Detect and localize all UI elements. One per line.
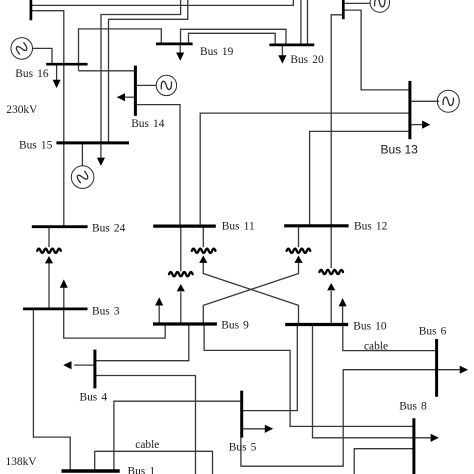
bus 8 (412, 418, 415, 474)
svg-text:Bus 1: Bus 1 (128, 465, 156, 474)
load arrow bus3 (60, 279, 68, 287)
wire bus17 to bus16 (32, 11, 64, 226)
transformer arrow T1 (45, 256, 53, 263)
wire load stem bus19 (179, 44, 181, 53)
wire bus11 to bus13 (200, 113, 408, 226)
svg-text:Bus 5: Bus 5 (229, 442, 257, 454)
wire bus12 to bus13 (310, 131, 409, 225)
wire bus21 to generator (344, 2, 370, 4)
transformer winding T4 (bus12-bus9) (287, 249, 311, 253)
bus 13 (408, 81, 411, 139)
wire bus3 to bus9 (64, 309, 166, 338)
svg-text:Bus 12: Bus 12 (354, 221, 388, 233)
svg-text:cable: cable (135, 439, 159, 451)
wire load arrow stem bus9 (158, 305, 160, 323)
wire bus21 to bus13 (344, 10, 408, 90)
load arrow bus14 (117, 93, 125, 101)
transformer winding T2 (bus11-bus9) (169, 272, 193, 276)
wire bus8 to bottom edge (354, 449, 413, 474)
wire bus16 to bus14 (79, 70, 136, 72)
wire load stem bus13 (410, 124, 422, 126)
generator G14 (156, 75, 176, 95)
load arrow bus9 (155, 297, 163, 305)
svg-text:Bus 20: Bus 20 (290, 54, 324, 66)
arrow on line at bus6 (460, 366, 468, 374)
wire bus14 to bus11 (135, 105, 180, 226)
wire bus19 to bus20 upper (181, 29, 287, 44)
wire bus11 to transformer T3 (202, 226, 204, 247)
bus 15 (56, 141, 129, 144)
bus 20 (269, 44, 314, 47)
transformer arrow T5 (327, 283, 335, 290)
transformer winding T1 (bus24-bus3) (37, 249, 61, 253)
bus 14 (134, 66, 137, 116)
svg-text:Bus 19: Bus 19 (200, 46, 234, 58)
wire generator G16 to bus16 (33, 48, 52, 63)
wire load stem bus16 (56, 64, 58, 80)
wire load arrow stem bus10 (342, 306, 344, 324)
svg-text:Bus 4: Bus 4 (80, 392, 108, 404)
wire bus5 to bus10 (242, 324, 297, 410)
wire load stem bus20 (281, 45, 283, 56)
wire cable line at bus1 (95, 451, 213, 474)
wire bus24 to transformer T1 (48, 227, 50, 248)
svg-text:Bus 3: Bus 3 (92, 306, 120, 318)
transformer arrow T4 (294, 256, 302, 263)
wire generator G15 to bus15 (81, 144, 83, 166)
load arrow bus15 (97, 158, 105, 166)
svg-text:Bus 10: Bus 10 (353, 321, 387, 333)
wire transformer T5 to bus10 (330, 291, 332, 324)
transformer winding T3 (bus11-bus10) (192, 249, 216, 253)
svg-text:Bus 15: Bus 15 (19, 139, 53, 151)
wire load stem bus4 (74, 364, 94, 366)
svg-text:cable: cable (364, 341, 388, 353)
wire bus5 to bus1 (114, 401, 241, 470)
svg-text:138kV: 138kV (6, 456, 38, 468)
load arrow bus13 (422, 121, 430, 129)
transformer arrow T2 (177, 284, 185, 291)
wire bus20 to top edge b (307, 0, 309, 44)
load arrow bus4 (63, 361, 71, 369)
bus 1 (62, 469, 120, 472)
svg-text:Bus 11: Bus 11 (222, 221, 255, 233)
svg-text:Bus 8: Bus 8 (399, 400, 427, 412)
bus 11 (153, 225, 216, 228)
bus 21 (partial) (342, 0, 345, 19)
wire transformer T4 to bus9 (diagonal) (203, 263, 298, 324)
svg-text:Bus 9: Bus 9 (221, 319, 249, 331)
bus 17 (partial) (30, 0, 33, 20)
wire load arrow stem bus3 (63, 287, 65, 308)
bus 24 (32, 225, 88, 228)
wire bus22 to bus12 (331, 15, 342, 225)
wire generator G14 to bus14 (137, 84, 156, 86)
bus 16 (46, 63, 87, 66)
svg-text:Bus 13: Bus 13 (381, 142, 419, 156)
wire transformer T2 to bus9 (180, 292, 182, 323)
wire bus12 to transformer T5 (330, 226, 332, 268)
bus 12 (284, 224, 348, 227)
wire bus9 to bus4 (95, 324, 189, 361)
wire bus10 to bus8 with arrow (313, 324, 431, 438)
generator G15 (71, 166, 94, 189)
svg-text:Bus 24: Bus 24 (92, 223, 126, 235)
svg-text:230kV: 230kV (6, 104, 38, 116)
wire bus16 to bus19 (79, 29, 162, 71)
wire transformer T3 to bus10 (diagonal) (203, 263, 298, 324)
transformer arrow T3 (199, 256, 207, 263)
wire bus4 to bottom edge (95, 376, 195, 474)
svg-text:Bus 16: Bus 16 (15, 68, 49, 80)
bus 4 (93, 350, 96, 389)
wire bus9 to bus8 (204, 324, 414, 426)
svg-text:Bus 6: Bus 6 (419, 326, 447, 338)
wire generator G13 to bus13 (411, 100, 439, 102)
wire bus11 to transformer T2 (180, 226, 182, 271)
bus 19 (156, 43, 193, 46)
bus 6 (435, 339, 438, 397)
generator G13 (437, 90, 459, 112)
bus 9 (153, 322, 217, 325)
wire bus21 to bus15 (line 15-21) (101, 0, 181, 142)
wire bus18 to bus15 (109, 0, 188, 142)
wire bus17 to bus18 (top) (32, 0, 294, 5)
bus 3 (23, 307, 88, 310)
wire transformer T1 to bus3 (48, 263, 50, 309)
wire bus5 to bus6 with arrow (241, 370, 460, 467)
wire load stem bus14 (124, 96, 136, 98)
bus 10 (285, 323, 348, 326)
svg-text:Bus 14: Bus 14 (131, 118, 165, 130)
transformer winding T5 (bus12-bus10) (319, 270, 343, 274)
wire bus12 to transformer T4 (298, 226, 300, 247)
wire cable bus10 to bus6 (343, 324, 437, 350)
load arrow bus20 (278, 55, 286, 63)
wire load stem bus15 (100, 143, 102, 158)
generator G21 (partial, top) (370, 0, 389, 12)
wire bus3 to bus1 (33, 309, 70, 470)
load arrow bus19 (176, 53, 184, 61)
bus 5 (240, 391, 243, 438)
wire load stem bus5 (242, 428, 265, 430)
arrow on line at bus8 (431, 434, 439, 442)
load arrow bus5 (265, 425, 273, 433)
load arrow bus10 (339, 298, 347, 306)
load arrow bus16 (53, 80, 61, 88)
wire bus20 to top edge a (300, 0, 302, 44)
wire bus19 to bus20 lower (189, 33, 276, 44)
generator G16 (11, 38, 33, 60)
